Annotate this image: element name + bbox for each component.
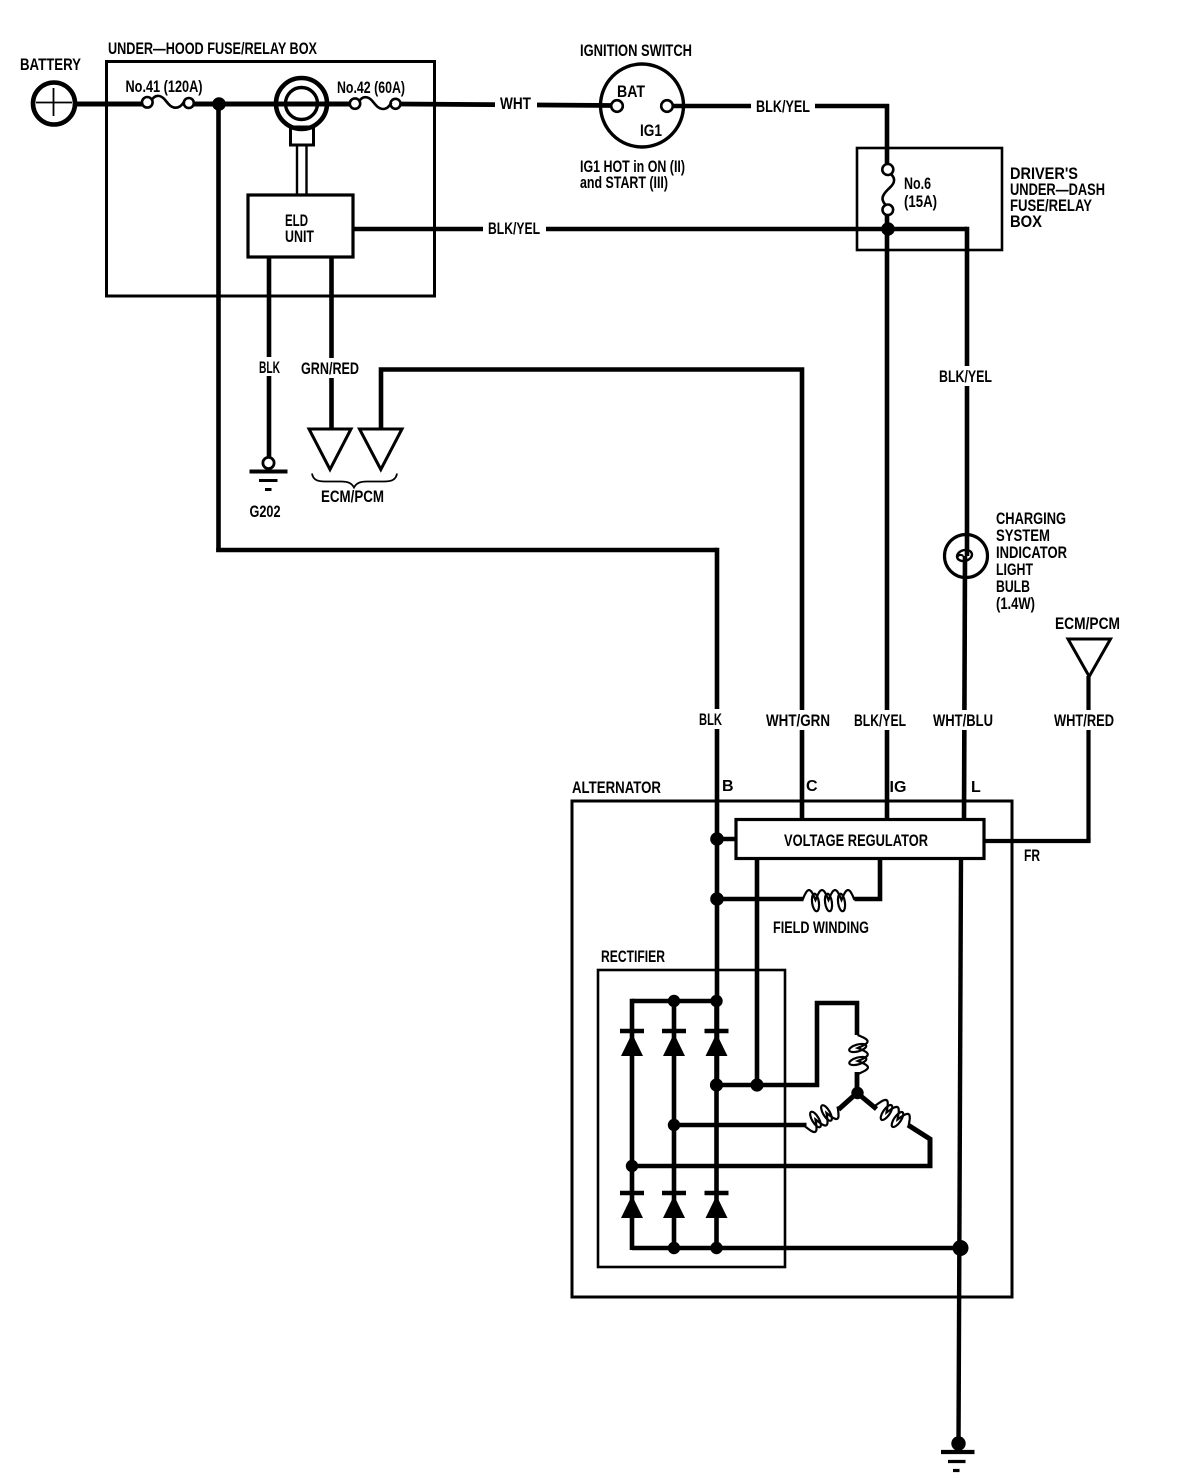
- svg-text:VOLTAGE REGULATOR: VOLTAGE REGULATOR: [784, 831, 928, 850]
- svg-text:C: C: [806, 778, 818, 795]
- ground G202: [250, 457, 288, 489]
- stator phase 3 coil: [876, 1100, 910, 1129]
- wire WHT/BLU bulb to alternator L pin: [964, 556, 965, 820]
- wire BLK ELD unit down to G202: [267, 257, 272, 458]
- svg-text:BLK/YEL: BLK/YEL: [488, 219, 540, 238]
- stator phase 1 coil to Y centre: [855, 1072, 860, 1093]
- svg-text:No.6: No.6: [904, 174, 931, 193]
- alternator box: [572, 801, 1012, 1297]
- wire BLK horizontal run to alternator: [216, 548, 717, 553]
- svg-text:(15A): (15A): [904, 192, 937, 211]
- svg-text:IGNITION SWITCH: IGNITION SWITCH: [580, 41, 692, 60]
- label G202: [250, 502, 281, 521]
- junction node phase3 bus D1: [626, 1160, 638, 1172]
- ECM/PCM connector triangle 1: [309, 429, 351, 470]
- label UNDER-HOOD FUSE/RELAY BOX: [108, 39, 317, 58]
- label WHT: [495, 93, 537, 113]
- diode D4: [620, 1193, 644, 1218]
- stator phase 1 bus: [717, 1003, 858, 1085]
- stator phase 3 tail to bus: [908, 1125, 930, 1166]
- label GRN/RED: [296, 358, 364, 378]
- junction node bottom bus D5: [668, 1242, 680, 1254]
- wire B junction to voltage regulator: [717, 837, 736, 842]
- stator phase 3 bus: [632, 1164, 933, 1169]
- svg-text:No.42 (60A): No.42 (60A): [337, 78, 405, 97]
- label No.42 (60A): [337, 78, 405, 97]
- junction node BLK/YEL at fuse No.6: [881, 222, 895, 236]
- stator phase 2 bus: [674, 1123, 807, 1128]
- field winding coil: [803, 890, 855, 912]
- junction node bottom bus D6: [710, 1242, 722, 1254]
- label IGNITION SWITCH: [580, 41, 692, 60]
- diode D3: [705, 1031, 729, 1056]
- stator phase 2 coil: [805, 1104, 839, 1132]
- diode D2: [662, 1031, 686, 1056]
- pin label IG: [890, 779, 907, 796]
- label WHT/BLU: [928, 710, 998, 730]
- wire BLK down to alternator B pin: [715, 548, 720, 1085]
- wire field winding left (B junction to coil): [717, 897, 804, 902]
- svg-text:BAT: BAT: [617, 82, 646, 101]
- wire battery to fuse No.41: [74, 102, 143, 107]
- label ECM/PCM bottom: [321, 487, 384, 506]
- diode D3 column wire: [714, 1001, 719, 1193]
- diode D5: [662, 1193, 686, 1218]
- stator phase 1 coil: [848, 1035, 868, 1074]
- label CHARGING: [996, 509, 1066, 528]
- junction node bottom bus ground: [953, 1240, 969, 1256]
- pin label L: [971, 779, 981, 796]
- wire voltage regulator to rectifier phase bus: [755, 858, 760, 1085]
- label (15A): [904, 192, 937, 211]
- svg-text:BLK/YEL: BLK/YEL: [939, 367, 992, 386]
- svg-text:FR: FR: [1024, 846, 1040, 865]
- rectifier top bus: [632, 999, 717, 1004]
- svg-text:BLK/YEL: BLK/YEL: [854, 711, 906, 730]
- label No.6: [904, 174, 931, 193]
- label UNIT: [285, 227, 314, 246]
- note IG1 HOT in ON (II): [580, 157, 685, 176]
- wire FR regulator to WHT/RED: [984, 839, 1091, 843]
- svg-text:FIELD WINDING: FIELD WINDING: [773, 918, 869, 937]
- svg-text:WHT: WHT: [500, 94, 531, 113]
- label BULB: [996, 577, 1030, 596]
- label FUSE/RELAY: [1010, 196, 1093, 215]
- label ELD: [285, 211, 308, 230]
- label BOX: [1010, 212, 1043, 231]
- label FR: [1024, 846, 1040, 865]
- svg-text:No.41 (120A): No.41 (120A): [126, 77, 203, 96]
- rectifier box: [598, 970, 785, 1267]
- fuse No.42: [350, 97, 401, 109]
- label RECTIFIER: [601, 947, 665, 966]
- svg-text:UNIT: UNIT: [285, 227, 314, 246]
- svg-text:B: B: [722, 778, 734, 795]
- label No.41 (120A): [126, 77, 203, 96]
- label VOLTAGE REGULATOR: [784, 831, 928, 850]
- ignition switch pin BAT label: [617, 82, 646, 101]
- svg-text:WHT/BLU: WHT/BLU: [933, 711, 993, 730]
- wire WHT/GRN from ECM/PCM triangle to alternator C pin: [381, 370, 802, 821]
- label FIELD WINDING: [773, 918, 869, 937]
- fuse No.41: [142, 96, 194, 108]
- wire BLK battery junction down: [216, 104, 221, 552]
- svg-text:UNDER—HOOD FUSE/RELAY BOX: UNDER—HOOD FUSE/RELAY BOX: [108, 39, 317, 58]
- label (1.4W): [996, 594, 1035, 613]
- wire BLK/YEL ELD unit to driver's box: [353, 227, 967, 232]
- under-hood fuse/relay box: [107, 62, 435, 297]
- ignition switch pin IG1 label: [640, 121, 662, 140]
- driver's under-dash fuse/relay box: [857, 148, 1002, 250]
- junction node B at regulator: [710, 832, 724, 846]
- diode D2 column wire: [672, 1001, 677, 1193]
- ignition switch: [601, 64, 684, 147]
- ECM/PCM connector triangle top right: [1068, 639, 1111, 677]
- battery: [33, 83, 75, 125]
- label BLK/YEL ELD wire: [483, 218, 546, 238]
- svg-text:and START (III): and START (III): [580, 173, 668, 192]
- wire BLK/YEL fuse No.6 to alternator IG pin: [885, 213, 890, 820]
- rectifier bottom bus: [632, 1246, 961, 1251]
- pin label B: [722, 778, 734, 795]
- svg-text:L: L: [971, 779, 981, 796]
- svg-text:GRN/RED: GRN/RED: [301, 359, 359, 378]
- label DRIVER'S: [1010, 164, 1078, 183]
- wire WHT/RED from ECM/PCM triangle down: [1086, 676, 1090, 841]
- ground at alternator bottom: [941, 1436, 975, 1470]
- wire WHT fuse No.42 to ignition switch: [400, 104, 612, 106]
- label WHT/RED: [1049, 710, 1119, 730]
- ELD unit box: [248, 195, 353, 257]
- label UNDER-DASH: [1010, 180, 1105, 199]
- diode D1: [620, 1031, 644, 1056]
- wire BLK/YEL down to fuse No.6: [885, 104, 890, 166]
- label ECM/PCM top right: [1055, 614, 1120, 633]
- junction node phase2 bus D2: [668, 1119, 680, 1131]
- diode D1 column wire: [630, 999, 635, 1193]
- junction node phase1 bus regulator: [750, 1078, 763, 1091]
- svg-text:ALTERNATOR: ALTERNATOR: [572, 778, 661, 797]
- svg-text:IG1: IG1: [640, 121, 662, 140]
- junction node phase1 bus B: [710, 1078, 723, 1091]
- wire BLK/YEL indicator branch down from driver's box: [965, 227, 970, 556]
- wire fuse No.41 to fuse No.42 (through ring): [193, 102, 350, 107]
- label BLK B wire: [694, 709, 727, 729]
- svg-text:ECM/PCM: ECM/PCM: [321, 487, 384, 506]
- note and START (III): [580, 173, 668, 192]
- brace ECM/PCM: [312, 474, 397, 488]
- voltage regulator box: [736, 820, 984, 859]
- junction node battery feed: [212, 97, 226, 111]
- svg-text:(1.4W): (1.4W): [996, 594, 1035, 613]
- stator phase 2 spoke: [839, 1092, 859, 1110]
- diode D6 column wire: [714, 1193, 719, 1248]
- svg-text:BLK: BLK: [259, 358, 280, 377]
- diode D5 column wire: [672, 1193, 677, 1248]
- svg-text:BLK: BLK: [699, 710, 722, 729]
- svg-text:BATTERY: BATTERY: [20, 55, 82, 74]
- stator phase 3 spoke: [856, 1092, 877, 1109]
- junction node B at field winding: [710, 892, 724, 906]
- svg-text:IG: IG: [890, 779, 907, 796]
- label ALTERNATOR: [572, 778, 661, 797]
- svg-text:G202: G202: [250, 502, 281, 521]
- wire field winding right (coil to regulator): [855, 858, 881, 899]
- ECM/PCM connector triangle 2: [360, 429, 403, 470]
- label WHT/GRN: [761, 710, 835, 730]
- pin label C: [806, 778, 818, 795]
- wire GRN/RED ELD unit down to ECM/PCM: [329, 257, 334, 429]
- wire BLK/YEL ignition switch to driver's box: [672, 104, 889, 109]
- charging system indicator light bulb: [945, 535, 988, 578]
- label BLK ELD wire: [254, 357, 286, 377]
- stator Y centre node: [851, 1087, 863, 1099]
- label SYSTEM: [996, 526, 1050, 545]
- label BATTERY: [20, 55, 82, 74]
- ring terminal connector: [276, 78, 327, 196]
- wire ground return from regulator to bottom: [959, 858, 962, 1444]
- label BLK/YEL bulb wire: [934, 366, 997, 386]
- label BLK/YEL ignition wire: [751, 96, 815, 116]
- junction node rectifier top bus D2: [668, 995, 680, 1007]
- junction node rectifier top bus B: [710, 995, 722, 1007]
- label BLK/YEL IG wire: [849, 710, 911, 730]
- label INDICATOR: [996, 543, 1067, 562]
- diode D4 column wire: [630, 1193, 635, 1250]
- svg-text:ECM/PCM: ECM/PCM: [1055, 614, 1120, 633]
- label LIGHT: [996, 560, 1033, 579]
- svg-text:RECTIFIER: RECTIFIER: [601, 947, 665, 966]
- svg-text:BOX: BOX: [1010, 212, 1043, 231]
- fuse No.6: [882, 164, 894, 215]
- diode D6: [705, 1193, 729, 1218]
- svg-text:BLK/YEL: BLK/YEL: [756, 97, 810, 116]
- svg-text:WHT/GRN: WHT/GRN: [766, 711, 830, 730]
- svg-text:WHT/RED: WHT/RED: [1054, 711, 1114, 730]
